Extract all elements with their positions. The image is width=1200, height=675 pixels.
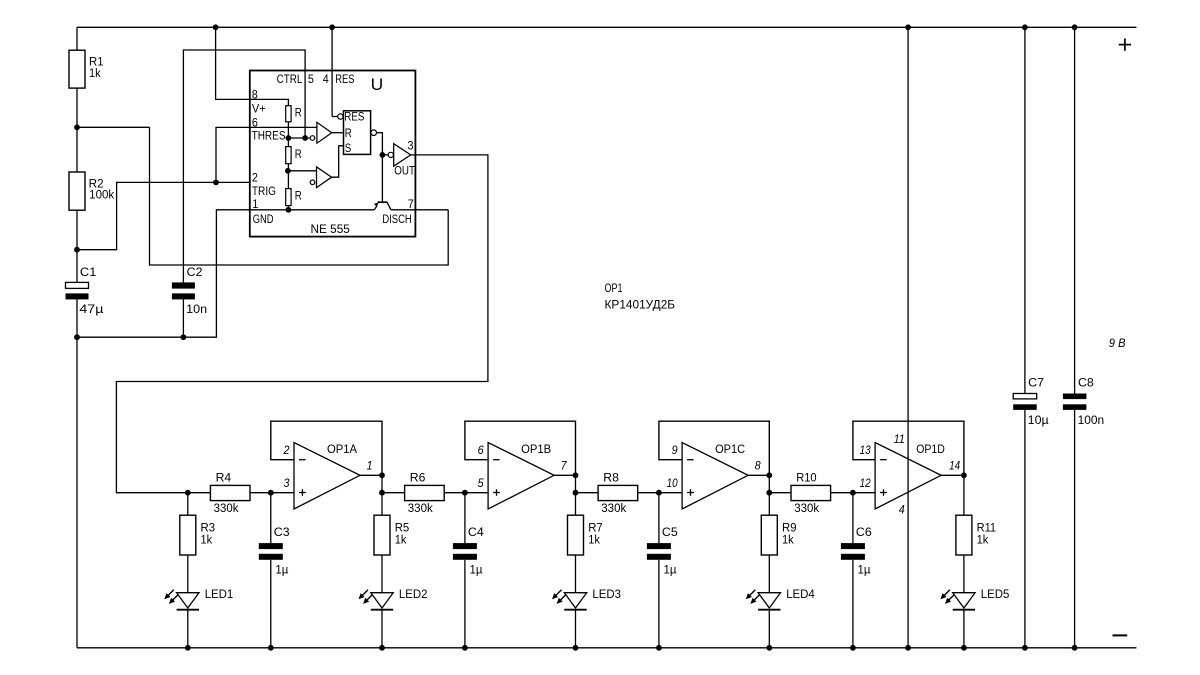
wire OP1B output to node bbox=[554, 474, 575, 476]
node 330k takeoff on output drop bbox=[573, 490, 579, 496]
node plus input of OP1C bbox=[656, 490, 662, 496]
resistor R8 330k bbox=[598, 472, 638, 515]
wire R3 to LED1 bbox=[187, 555, 189, 593]
wire 1/3Vcc tap to lower comparator plus input bbox=[288, 170, 317, 172]
wire V+ top rail bbox=[77, 26, 1136, 28]
wire CTRL inside 555 to divider bbox=[304, 71, 306, 139]
svg-text:R5: R5 bbox=[395, 523, 410, 535]
svg-text:GND: GND bbox=[253, 214, 274, 226]
node OP1D output bbox=[961, 472, 967, 478]
wire lower comparator output to latch S input bbox=[332, 146, 344, 177]
resistor R2 100k bbox=[69, 172, 114, 210]
svg-text:C3: C3 bbox=[274, 527, 290, 539]
node C8 bottom rail bbox=[1072, 645, 1078, 651]
pin 4 RES label bbox=[323, 74, 355, 86]
node R1-R2 junction bbox=[74, 124, 80, 130]
node C7 top rail bbox=[1022, 24, 1028, 30]
svg-text:TRIG: TRIG bbox=[252, 186, 276, 198]
svg-text:1k: 1k bbox=[588, 535, 600, 547]
node C8 top rail bbox=[1072, 24, 1078, 30]
wire node to resistor R6 bbox=[382, 492, 405, 494]
node RES riser on top rail bbox=[329, 24, 335, 30]
svg-text:C8: C8 bbox=[1078, 378, 1094, 390]
node 330k takeoff on output drop bbox=[379, 490, 385, 496]
svg-text:13: 13 bbox=[860, 445, 872, 457]
svg-text:R3: R3 bbox=[201, 523, 216, 535]
svg-text:LED3: LED3 bbox=[592, 589, 621, 601]
op-amp OP1C triangle bbox=[682, 443, 748, 510]
wire DISCH return riser bbox=[150, 127, 449, 265]
node V+ riser on top rail bbox=[213, 24, 219, 30]
capacitor C6 1u bbox=[841, 493, 872, 648]
node C3 at bottom rail bbox=[268, 645, 274, 651]
svg-text:S: S bbox=[345, 143, 352, 155]
svg-text:4: 4 bbox=[323, 74, 330, 86]
wire from top rail to R1 bbox=[76, 27, 78, 50]
node LED2 at bottom rail bbox=[379, 645, 385, 651]
wire output node down to R11 bbox=[963, 475, 965, 515]
svg-text:5: 5 bbox=[308, 74, 314, 86]
op-amp output buffer triangle bbox=[394, 144, 411, 167]
svg-text:U: U bbox=[371, 76, 384, 94]
svg-text:1k: 1k bbox=[201, 535, 213, 547]
capacitor C3 1u bbox=[259, 493, 290, 648]
wire C8 to rails bbox=[1074, 27, 1076, 393]
resistor R1 1k bbox=[69, 50, 104, 88]
op-amp OP1B triangle bbox=[488, 443, 554, 510]
resistor R5 1k bbox=[374, 515, 409, 555]
svg-text:1µ: 1µ bbox=[664, 564, 677, 576]
svg-text:LED5: LED5 bbox=[981, 589, 1010, 601]
wire reference to upper comparator inverting input bbox=[288, 137, 310, 139]
node power vertical on bottom rail bbox=[905, 645, 911, 651]
wire ground bottom rail bbox=[77, 647, 1136, 649]
svg-text:1k: 1k bbox=[977, 535, 989, 547]
svg-text:330k: 330k bbox=[408, 503, 433, 515]
svg-text:7: 7 bbox=[561, 460, 568, 472]
wire R11 to LED5 bbox=[963, 555, 965, 593]
svg-text:10: 10 bbox=[667, 478, 679, 490]
transistor Q collector to DISCH bbox=[387, 203, 391, 210]
svg-text:1k: 1k bbox=[782, 535, 794, 547]
wire input node down to R3 bbox=[187, 493, 189, 516]
node divider reference 2/3Vcc bbox=[286, 135, 292, 141]
resistor R4 330k bbox=[210, 472, 250, 515]
svg-text:C5: C5 bbox=[662, 527, 678, 539]
wire R5 to LED2 bbox=[381, 555, 383, 593]
svg-text:6: 6 bbox=[478, 445, 485, 457]
wire R2 to C1 bbox=[76, 210, 78, 282]
flip-flop latch box bbox=[344, 111, 371, 155]
node LED3 at bottom rail bbox=[573, 645, 579, 651]
wire DISCH pin 7 stub outside bbox=[415, 209, 448, 211]
wire LED1 to bottom rail bbox=[187, 610, 189, 648]
wire C7 bottom to rail bbox=[1024, 410, 1026, 648]
svg-text:12: 12 bbox=[860, 478, 872, 490]
svg-text:1k: 1k bbox=[395, 535, 407, 547]
svg-text:2: 2 bbox=[252, 173, 258, 185]
wire OUT pin 3 routing to op-amp chain bbox=[116, 155, 488, 493]
svg-text:1µ: 1µ bbox=[275, 564, 288, 576]
resistor R9 1k bbox=[761, 515, 796, 555]
node power vertical on top rail bbox=[905, 24, 911, 30]
svg-text:R: R bbox=[295, 108, 302, 120]
pin 5 CTRL label bbox=[277, 74, 314, 86]
pin 2 TRIG label bbox=[252, 173, 276, 199]
IC U NE 555 body bbox=[250, 71, 416, 237]
wire C2 bottom to ground link bbox=[182, 299, 184, 337]
svg-text:OP1B: OP1B bbox=[521, 444, 551, 456]
svg-text:THRES: THRES bbox=[252, 131, 286, 143]
capacitor C1 47u polarized bbox=[66, 267, 104, 316]
svg-text:1: 1 bbox=[367, 460, 373, 472]
op-amp OP1D feedback box bbox=[853, 421, 964, 475]
wire R4 to plus input node bbox=[250, 492, 271, 494]
bubble latch RES input bbox=[338, 114, 343, 119]
pin 6 THRES label bbox=[252, 117, 286, 142]
resistor R10 330k bbox=[791, 472, 831, 515]
wire output node down to R7 bbox=[575, 475, 577, 515]
node divider 1/3Vcc tap bbox=[285, 168, 291, 174]
svg-text:330k: 330k bbox=[214, 503, 239, 515]
svg-text:3: 3 bbox=[408, 141, 414, 153]
node OP1B output bbox=[573, 472, 579, 478]
svg-text:R8: R8 bbox=[603, 472, 619, 484]
svg-text:330k: 330k bbox=[794, 503, 819, 515]
wire bottom internal resistor to GND line bbox=[287, 206, 289, 210]
node plus input of OP1D bbox=[850, 490, 856, 496]
svg-text:10µ: 10µ bbox=[1028, 415, 1049, 427]
svg-text:10n: 10n bbox=[186, 304, 207, 316]
wire node to resistor R4 bbox=[188, 492, 211, 494]
node internal divider at GND bbox=[286, 207, 292, 213]
wire R1 to R2 bbox=[76, 88, 78, 172]
node C1 bottom / ground link bbox=[74, 334, 80, 340]
resistor R7 1k bbox=[568, 515, 603, 555]
wire C1 to bottom rail bbox=[76, 299, 78, 647]
svg-text:OUT: OUT bbox=[394, 166, 415, 178]
svg-text:4: 4 bbox=[899, 504, 905, 516]
pin 3 OUT label bbox=[394, 141, 415, 178]
wire plus input line into OP1C bbox=[659, 492, 682, 494]
LED LED1 bbox=[164, 589, 233, 610]
svg-text:9 В: 9 В bbox=[1109, 338, 1126, 350]
node C7 bottom rail bbox=[1022, 645, 1028, 651]
capacitor C4 1u bbox=[453, 493, 484, 648]
wire LED5 to bottom rail bbox=[963, 610, 965, 648]
wire C2 top to CTRL pin 5 bbox=[183, 50, 305, 282]
svg-text:C1: C1 bbox=[80, 267, 97, 279]
wire R9 to LED4 bbox=[768, 555, 770, 593]
node R2-C1 junction (TRIG net) bbox=[74, 247, 80, 253]
wire output node down to R5 bbox=[381, 475, 383, 515]
op-amp lower comparator (TRIG) bbox=[310, 167, 331, 188]
wire LED2 to bottom rail bbox=[381, 610, 383, 648]
svg-text:100k: 100k bbox=[89, 190, 114, 202]
resistor R bottom of internal divider bbox=[286, 189, 302, 206]
wire C7 to rails bbox=[1024, 27, 1026, 393]
node C2 ground link bbox=[181, 334, 187, 340]
node CTRL at reference bbox=[302, 135, 308, 141]
wire LED3 to bottom rail bbox=[575, 610, 577, 648]
capacitor C2 10n on CTRL bbox=[172, 267, 207, 316]
svg-text:OP1: OP1 bbox=[605, 283, 623, 295]
wire buffer output to pin 3 OUT bbox=[411, 154, 416, 156]
wire upper comparator output to latch R input bbox=[332, 132, 344, 134]
svg-text:R11: R11 bbox=[977, 523, 997, 535]
pin 7 DISCH label bbox=[382, 199, 413, 226]
op-amp OP1A triangle bbox=[294, 443, 360, 510]
svg-text:R: R bbox=[295, 191, 302, 203]
svg-text:C4: C4 bbox=[468, 527, 484, 539]
node plus input of OP1A bbox=[268, 490, 274, 496]
LED LED5 bbox=[940, 589, 1009, 610]
node C4 at bottom rail bbox=[462, 645, 468, 651]
node C6 at bottom rail bbox=[850, 645, 856, 651]
op-amp OP1B feedback box bbox=[465, 421, 576, 475]
svg-text:LED2: LED2 bbox=[399, 589, 428, 601]
svg-text:R10: R10 bbox=[796, 472, 816, 484]
LED LED4 bbox=[746, 589, 816, 610]
bubble output buffer input bbox=[388, 152, 393, 157]
op-amp OP1A feedback box bbox=[271, 421, 382, 475]
resistor R top of internal divider bbox=[286, 106, 302, 122]
svg-text:OP1C: OP1C bbox=[715, 444, 745, 456]
svg-text:C2: C2 bbox=[187, 267, 203, 279]
transistor Q discharge: base bar bbox=[378, 201, 388, 203]
svg-text:C6: C6 bbox=[856, 527, 872, 539]
node OP1C output bbox=[766, 472, 772, 478]
LED LED3 bbox=[552, 589, 621, 610]
wire THRES branch: R1-R2 node to DISCH return riser bbox=[77, 126, 150, 128]
node plus input of OP1B bbox=[462, 490, 468, 496]
wire THRES line to upper comparator bbox=[250, 126, 317, 128]
wire V+ feed to divider chain inside 555 bbox=[250, 99, 289, 105]
svg-text:R9: R9 bbox=[782, 523, 797, 535]
node LED5 at bottom rail bbox=[961, 645, 967, 651]
svg-text:RES: RES bbox=[344, 112, 364, 124]
node LED1 at bottom rail bbox=[185, 645, 191, 651]
svg-text:RES: RES bbox=[335, 74, 355, 86]
wire OP1C output to node bbox=[748, 474, 769, 476]
wire middle to bottom internal resistor bbox=[287, 164, 289, 189]
svg-text:OP1D: OP1D bbox=[916, 444, 945, 456]
wire R6 to plus input node bbox=[444, 492, 465, 494]
resistor R middle of internal divider bbox=[286, 147, 302, 164]
svg-text:NE 555: NE 555 bbox=[311, 224, 350, 236]
wire V+ pin 8 from top rail bbox=[216, 27, 250, 99]
wire between internal divider resistors bbox=[287, 122, 289, 147]
svg-text:2: 2 bbox=[283, 445, 290, 457]
capacitor C7 10u polarized bbox=[1013, 378, 1049, 428]
node OP1A output bbox=[379, 472, 385, 478]
op-amp upper comparator (THRES) bbox=[310, 122, 332, 143]
svg-text:1µ: 1µ bbox=[470, 564, 483, 576]
wire R7 to LED3 bbox=[575, 555, 577, 593]
svg-text:1µ: 1µ bbox=[858, 564, 871, 576]
wire THRES pin riser bbox=[216, 127, 250, 182]
svg-text:1k: 1k bbox=[89, 68, 101, 80]
wire node to buffer bubble bbox=[382, 154, 388, 156]
wire output node down to R9 bbox=[768, 475, 770, 515]
wire plus input line into OP1B bbox=[465, 492, 488, 494]
bubble latch Q output bbox=[371, 130, 377, 136]
svg-text:5: 5 bbox=[478, 478, 485, 490]
svg-text:OP1A: OP1A bbox=[327, 444, 357, 456]
svg-text:3: 3 bbox=[284, 478, 291, 490]
wire node to resistor R8 bbox=[576, 492, 599, 494]
capacitor C5 1u bbox=[647, 493, 678, 648]
wire R10 to plus input node bbox=[831, 492, 853, 494]
wire plus input line into OP1D bbox=[853, 492, 875, 494]
node C5 at bottom rail bbox=[656, 645, 662, 651]
wire ground link to GND pin 1 bbox=[77, 210, 250, 337]
svg-text:V+: V+ bbox=[252, 104, 266, 116]
op-amp OP1C feedback box bbox=[659, 421, 769, 475]
svg-text:8: 8 bbox=[755, 460, 762, 472]
svg-text:R: R bbox=[295, 149, 302, 161]
node 330k takeoff on output drop bbox=[766, 490, 772, 496]
svg-text:C7: C7 bbox=[1028, 378, 1044, 390]
wire OP1D power pin 11 / pin 4 vertical bbox=[907, 27, 909, 648]
wire RES pin riser to latch bubble bbox=[332, 116, 338, 118]
svg-text:9: 9 bbox=[672, 445, 679, 457]
wire RES pin 4 from top rail bbox=[331, 27, 333, 116]
svg-text:330k: 330k bbox=[601, 503, 626, 515]
transistor Q emitter with arrow bbox=[374, 203, 379, 210]
resistor R11 1k bbox=[956, 515, 996, 555]
wire GND-DISCH line inside 555 bbox=[250, 209, 374, 211]
wire latch Q to output buffer and discharge transistor bbox=[377, 133, 383, 203]
wire LED4 to bottom rail bbox=[768, 610, 770, 648]
svg-text:R: R bbox=[345, 128, 352, 140]
node LED4 at bottom rail bbox=[766, 645, 772, 651]
wire TRIG branch from R2-C1 node bbox=[77, 182, 250, 249]
capacitor C8 100n bbox=[1063, 378, 1104, 428]
svg-text:CTRL: CTRL bbox=[277, 74, 303, 86]
svg-text:КР1401УД2Б: КР1401УД2Б bbox=[605, 300, 676, 312]
pin 1 GND label bbox=[252, 199, 273, 226]
wire C8 bottom to rail bbox=[1074, 410, 1076, 648]
node TRIG-THRES tie bbox=[213, 180, 219, 186]
svg-text:DISCH: DISCH bbox=[382, 214, 411, 226]
svg-text:14: 14 bbox=[949, 460, 960, 472]
svg-text:100n: 100n bbox=[1078, 415, 1105, 427]
pin 8 V+ label bbox=[252, 90, 266, 116]
svg-text:LED4: LED4 bbox=[786, 589, 815, 601]
node buffer input junction bbox=[380, 152, 386, 158]
svg-text:R6: R6 bbox=[410, 472, 426, 484]
wire node to resistor R10 bbox=[769, 492, 791, 494]
terminal - (9V negative) bbox=[1113, 634, 1128, 636]
node OUT feed at first stage input bbox=[185, 490, 191, 496]
LED LED2 bbox=[359, 589, 428, 610]
wire R8 to plus input node bbox=[638, 492, 659, 494]
svg-text:47µ: 47µ bbox=[79, 304, 103, 316]
svg-text:R1: R1 bbox=[89, 57, 104, 69]
svg-text:LED1: LED1 bbox=[205, 589, 234, 601]
op-amp OP1D triangle bbox=[875, 443, 941, 510]
resistor R6 330k bbox=[405, 472, 445, 515]
wire OP1A output to node bbox=[360, 474, 382, 476]
wire OP1D output to node bbox=[941, 474, 964, 476]
resistor R3 1k bbox=[180, 515, 215, 555]
wire plus input line into OP1A bbox=[271, 492, 294, 494]
svg-text:R7: R7 bbox=[588, 523, 603, 535]
terminal + (9V positive) bbox=[1119, 38, 1131, 50]
svg-text:11: 11 bbox=[894, 434, 905, 446]
wire DISCH line to pin 7 bbox=[391, 209, 416, 211]
svg-text:R4: R4 bbox=[216, 472, 232, 484]
